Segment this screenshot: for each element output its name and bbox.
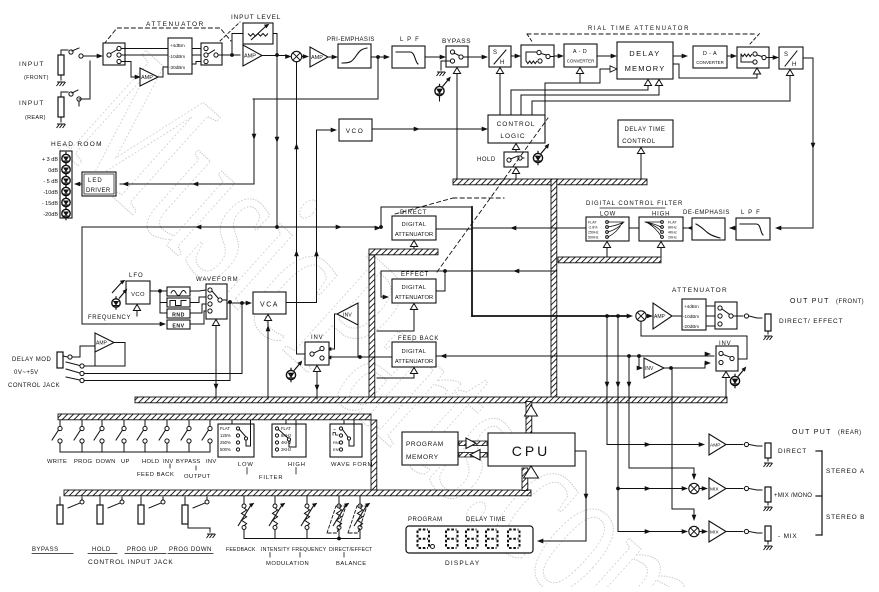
svg-text:DIRECT: DIRECT (400, 210, 427, 216)
attenuator pad block +4dBm/-10dBm/-30dBm (168, 38, 192, 74)
svg-text:BYPASS: BYPASS (32, 547, 59, 553)
program memory block (402, 432, 458, 465)
svg-text:DIGITAL CONTROL FILTER: DIGITAL CONTROL FILTER (586, 201, 683, 207)
pre-emphasis block (338, 44, 371, 68)
ground J6 (764, 507, 773, 511)
low pass filter block 2 (736, 218, 770, 240)
VCA block (253, 292, 286, 314)
A7 input wire (637, 366, 643, 371)
VCA output wire to VCO trunk (286, 302, 317, 304)
svg-text:L P F: L P F (400, 37, 420, 43)
svg-text:BYPASS: BYPASS (176, 459, 201, 465)
svg-text:UP: UP (121, 459, 130, 465)
wire LPF to bypass switch (425, 56, 442, 58)
sine shape box (167, 287, 190, 296)
svg-text:CPU: CPU (512, 443, 551, 459)
mixer M2 front output sum (636, 311, 646, 321)
effect attenuator input wire (381, 271, 385, 297)
display digit 1 (418, 530, 430, 549)
bypass switch S3 (446, 46, 468, 67)
svg-text:OUT PUT: OUT PUT (790, 298, 830, 305)
mixer M3 rear plus (689, 483, 699, 493)
svg-text:ATTENUATOR: ATTENUATOR (395, 359, 433, 365)
front pad block +4dBm/-10dBm/-20dBm (682, 299, 706, 330)
svg-text:DIGITAL: DIGITAL (402, 349, 427, 355)
data bus CPU to program memory (459, 453, 487, 458)
CPU bus arrow top (525, 405, 538, 416)
low pass filter block 1 (392, 46, 425, 68)
display digit 5 (508, 530, 520, 549)
feed back attenuator control input (410, 368, 417, 374)
svg-text:MODULATION: MODULATION (266, 561, 309, 567)
ground for J2 (57, 124, 66, 128)
svg-text:- 15dB: - 15dB (42, 201, 59, 207)
control jack 1 (59, 497, 61, 505)
control jack 2 (99, 497, 101, 505)
digital control filter bus (hatched) horizontal (558, 257, 661, 263)
wire S1 to amp A1 (121, 62, 137, 78)
svg-text:+4dBm: +4dBm (684, 304, 699, 309)
ground J4 (764, 336, 773, 340)
svg-text:PROG: PROG (74, 459, 92, 465)
svg-text:WAVEFORM: WAVEFORM (196, 277, 239, 283)
svg-text:DIRECT/ EFFECT: DIRECT/ EFFECT (779, 318, 843, 325)
digital attenuator bus (hatched) vertical left (369, 255, 375, 402)
svg-text:INTENSITY: INTENSITY (261, 547, 290, 553)
jack J4 output front (765, 314, 771, 331)
rear mix top feed x629 (629, 356, 694, 476)
rear minus mix feed (618, 489, 684, 532)
svg-text:ATTENUATOR: ATTENUATOR (395, 232, 433, 238)
control logic lower input (512, 144, 519, 150)
rear mix trunk x618 (618, 316, 684, 489)
svg-text:CONTROL: CONTROL (497, 121, 536, 128)
SH2 output wire down right side (779, 58, 813, 228)
svg-text:INPUT: INPUT (19, 100, 45, 107)
rear inverted feed x672 (672, 368, 694, 517)
inverter return trunk x296 (297, 62, 309, 354)
svg-text:2KHz: 2KHz (668, 236, 677, 240)
main lower control bus (hatched) horizontal (135, 397, 727, 403)
front pot 2 (274, 496, 276, 504)
wire S4 to A-D converter (554, 55, 560, 57)
svg-text:DELAY: DELAY (629, 49, 661, 58)
ground J7 (764, 546, 773, 550)
head room LED - 5 dB (62, 176, 70, 184)
wire delay memory to D-A converter (673, 55, 684, 57)
wires pads to switch S9 (706, 305, 715, 307)
rear inverter amp A7 (644, 358, 664, 378)
wire LPF2 to de-emphasis (730, 227, 736, 229)
control jack 3 (140, 497, 142, 505)
svg-text:BALANCE: BALANCE (336, 561, 367, 567)
svg-text:MEMORY: MEMORY (406, 454, 439, 461)
digital control bus (hatched) vertical main (551, 179, 557, 402)
svg-text:ATTENUATOR: ATTENUATOR (672, 287, 728, 294)
svg-text:INV: INV (645, 366, 654, 372)
svg-text:DIRECT/EFFECT: DIRECT/EFFECT (329, 547, 373, 553)
main level tap wire x275 (276, 55, 278, 227)
direct attenuator top loop wire (381, 207, 472, 227)
digital control bus (hatched) horizontal top (453, 179, 647, 185)
rear mix output jack wires (726, 488, 743, 490)
svg-text:DRIVER: DRIVER (86, 188, 111, 194)
svg-text:(REAR): (REAR) (25, 115, 46, 121)
control jack panel bus (hatched) horizontal (64, 490, 531, 496)
svg-text:FLAT: FLAT (220, 426, 230, 431)
direct digital attenuator block (392, 216, 436, 240)
inverter switch feed wires (328, 314, 337, 349)
wire VCO2 to waveform shapers (150, 290, 167, 292)
svg-text:CONVERTER: CONVERTER (567, 59, 595, 64)
waveform select switch S7 (206, 284, 227, 319)
digital attenuator bus (hatched) top segment (369, 249, 438, 255)
svg-text:0V~+5V: 0V~+5V (14, 370, 39, 376)
svg-text:FEEDBACK: FEEDBACK (226, 547, 256, 553)
wire bypass to S/H 1 (463, 56, 484, 58)
signal wire to LED driver (120, 99, 254, 184)
svg-text:-30dBm: -30dBm (169, 65, 185, 70)
svg-text:500Hz: 500Hz (588, 236, 599, 240)
svg-text:D - A: D - A (703, 51, 717, 57)
SH1 control input (496, 68, 503, 74)
feed back attenuator output wire to inverter switch (328, 356, 392, 358)
delay memory block (617, 42, 673, 79)
S8 control LED (286, 370, 295, 379)
svg-text:STEREO B: STEREO B (826, 514, 865, 521)
jack J7 rear minus mix (765, 526, 771, 541)
svg-text:PROGRAM: PROGRAM (406, 441, 444, 448)
wires pads to switch S2 (192, 48, 201, 50)
head room LED 0dB (62, 165, 70, 173)
svg-text:LOW: LOW (238, 462, 254, 468)
svg-text:~: ~ (333, 427, 336, 432)
svg-text:VCO: VCO (131, 292, 145, 298)
svg-text:AMP: AMP (710, 443, 720, 449)
rear minus mix output jack wires (726, 531, 743, 533)
svg-text:HOLD: HOLD (142, 459, 159, 465)
hold switch control line to bus (512, 168, 519, 174)
front pot 3 (306, 496, 308, 504)
panel switch 1 (59, 421, 61, 427)
rear phase switch S10 (716, 346, 738, 371)
mod amp feedback loop (93, 352, 95, 366)
D-A converter block (693, 46, 727, 68)
svg-text:FREQUENCY: FREQUENCY (88, 315, 131, 321)
svg-text:MIX: MIX (710, 530, 719, 536)
wire A2 to mixer M1 (262, 55, 288, 57)
display block (406, 526, 533, 553)
LFO VCO block (126, 281, 150, 304)
svg-text:INV: INV (206, 459, 217, 465)
svg-text:DIGITAL: DIGITAL (402, 222, 427, 228)
wire high filter to de-emphasis (683, 227, 687, 229)
effect output bold bus x472 (471, 207, 473, 316)
wire S1 to pad rows (121, 48, 168, 50)
svg-text:AMP: AMP (141, 75, 153, 81)
S5 control input (753, 68, 760, 74)
svg-text:INV: INV (311, 335, 323, 341)
svg-text:H: H (792, 62, 796, 68)
svg-text:RND: RND (172, 313, 185, 319)
svg-text:125%: 125% (220, 433, 231, 438)
wire S2 to amp A2 with level pot loop (218, 54, 240, 56)
delay mod control wire to VCA feed 1 (84, 303, 242, 374)
envelope feed drop to ENV detector (82, 227, 162, 324)
A-D control input (576, 68, 583, 74)
feed back digital attenuator block (392, 342, 436, 367)
rear jack wire to selector (61, 92, 68, 97)
sample-hold block SH1 (489, 46, 511, 67)
panel high filter switch (272, 424, 306, 457)
svg-text:CONTROL: CONTROL (622, 139, 656, 145)
svg-text:HEAD ROOM: HEAD ROOM (51, 141, 103, 148)
D-A lower wire to output switch control (673, 64, 757, 78)
switch panel bus (hatched) top edge (58, 414, 371, 420)
S10 control input (722, 372, 729, 378)
wire A3 to pre-emphasis (328, 56, 334, 58)
svg-text:PROG DOWN: PROG DOWN (169, 547, 212, 553)
output group label (195, 466, 197, 470)
svg-text:MIX: MIX (710, 487, 719, 493)
svg-text:A - D: A - D (573, 49, 587, 55)
panel switch 6 (166, 421, 168, 427)
mix amp A9 (709, 478, 726, 499)
inverter select switch S8 (305, 342, 329, 365)
effect digital attenuator block (392, 279, 436, 303)
amp A1 (140, 68, 158, 86)
VCA control input from bus (264, 315, 271, 321)
LED driver block (82, 172, 116, 196)
effect output bold bus y316 (472, 315, 629, 317)
svg-text:BYPASS: BYPASS (442, 38, 471, 45)
RND shape box (167, 309, 190, 318)
display digit 3 (466, 530, 478, 549)
wire A-D to delay memory (597, 55, 613, 57)
jack J2 input rear (58, 97, 64, 117)
LFO rate pot arrow (112, 282, 122, 293)
head room LED -10dB (62, 187, 70, 195)
svg-text:H: H (500, 60, 504, 66)
low filter control input (603, 242, 610, 248)
svg-text:DISPLAY: DISPLAY (445, 560, 480, 567)
panel switch 4 (123, 421, 125, 427)
head room LED + 3 dB (62, 154, 70, 162)
svg-text:FEED BACK: FEED BACK (137, 472, 174, 478)
svg-text:(FRONT): (FRONT) (24, 75, 49, 81)
svg-text:PROG UP: PROG UP (127, 547, 158, 553)
svg-text:OUTPUT: OUTPUT (184, 474, 211, 480)
panel switch common bus (60, 451, 210, 453)
square shape box (167, 298, 190, 307)
svg-text:250%: 250% (220, 440, 231, 445)
pre-emphasis feedback wire (253, 57, 378, 99)
wire D-A to output switch S5 (727, 55, 733, 57)
svg-text:+4dBm: +4dBm (170, 43, 185, 48)
bypass control line to bus (453, 68, 460, 74)
svg-text:LED: LED (88, 178, 103, 184)
wire LED driver to LEDs (76, 183, 82, 185)
svg-text:FEED BACK: FEED BACK (398, 336, 439, 342)
svg-text:CONVERTER: CONVERTER (696, 60, 724, 65)
real time attenuator output switch S5 with resistor (737, 47, 769, 68)
svg-text:ENV: ENV (172, 324, 184, 330)
svg-text:FLAT: FLAT (281, 426, 291, 431)
front output wire to jack (733, 315, 743, 317)
wire M2 to amp A6 (647, 315, 650, 317)
delay memory control inputs (644, 80, 651, 86)
svg-text:DELAY TIME: DELAY TIME (624, 127, 665, 133)
front pot 4 (338, 496, 340, 504)
svg-text:- MIX: - MIX (778, 533, 798, 540)
svg-text:250Hz: 250Hz (588, 231, 599, 235)
wire SH1 to pre attenuator switch (511, 55, 517, 57)
jack J3 delay mod (57, 352, 63, 368)
rear direct trunk x607 (607, 316, 702, 445)
mixer M4 rear minus (689, 526, 699, 536)
wire to mod amp A4 (72, 346, 94, 357)
delay time control input from bus (637, 148, 644, 154)
wire A6 to front pad block (672, 315, 682, 317)
head room LED -20dB (62, 209, 70, 217)
mod amp A4 (95, 333, 114, 352)
display digit 2 (446, 530, 458, 549)
jack J6 rear mix (765, 487, 771, 502)
svg-text:INV: INV (163, 459, 174, 465)
svg-text:ATTENUATOR: ATTENUATOR (146, 21, 205, 28)
svg-text:AMP: AMP (244, 54, 256, 60)
switch panel bus (hatched) right vertical (371, 420, 377, 490)
svg-text:PRI-EMPHASIS: PRI-EMPHASIS (327, 37, 375, 43)
svg-text:8KHz: 8KHz (668, 226, 677, 230)
front level switch S9 (715, 302, 737, 329)
CPU to display wire (540, 451, 586, 541)
wire A1 to -30dBm pad (158, 67, 168, 77)
wire low-high filters (629, 227, 639, 229)
hold control LED (533, 153, 542, 162)
dashed outline direct/effect pots (327, 506, 346, 533)
bypass control LED (435, 86, 444, 95)
direct attenuator control input (410, 241, 417, 247)
amp A3 (310, 47, 328, 67)
svg-text:MEMORY: MEMORY (625, 64, 666, 73)
A-D converter block (564, 44, 597, 67)
svg-text:+MIX /MONO: +MIX /MONO (774, 493, 812, 499)
inverter input wire (357, 314, 359, 356)
control jack 4 (184, 497, 186, 505)
svg-text:-20dB: -20dB (43, 212, 58, 218)
real time attenuator dashed outline (527, 33, 757, 35)
bypass lower contact to ground (441, 61, 451, 70)
svg-text:-10dBm: -10dBm (683, 314, 699, 319)
svg-text:PROGRAM: PROGRAM (408, 517, 443, 523)
wire pre-emphasis to LPF (371, 56, 385, 58)
ENV shape box (167, 320, 190, 329)
svg-text:-10dB: -10dB (43, 190, 58, 196)
front pot common bus (244, 538, 360, 540)
svg-text:LFO: LFO (129, 273, 144, 279)
effect attenuator control input (410, 304, 417, 310)
front pot 5 (359, 496, 361, 504)
direct attenuator output wire (436, 228, 472, 230)
dashed link S2 to input level pot (220, 22, 240, 41)
low filter block (586, 217, 629, 241)
svg-text:VCA: VCA (260, 302, 279, 309)
svg-text:0dB: 0dB (48, 168, 58, 174)
svg-text:FREQUENCY: FREQUENCY (292, 547, 327, 553)
wire VCO to control logic (372, 128, 484, 130)
CPU block (488, 433, 575, 466)
hold switch S6 (504, 152, 528, 167)
ground bypass (437, 72, 446, 76)
effect attenuator output wire (436, 271, 445, 291)
svg-text:STEREO A: STEREO A (826, 468, 865, 475)
S8 control input (313, 366, 320, 372)
CPU bus stub (hatched) to top bus (526, 402, 532, 434)
switch S2 output attenuator select (201, 43, 222, 65)
svg-text:CONTROL INPUT JACK: CONTROL INPUT JACK (88, 559, 174, 566)
svg-text:2KHz: 2KHz (281, 447, 291, 452)
svg-text:DELAY TIME: DELAY TIME (466, 517, 506, 523)
head room LED - 15dB (62, 198, 70, 206)
svg-text:EFFECT: EFFECT (401, 272, 429, 278)
svg-text:-2.8%: -2.8% (588, 226, 598, 230)
A7 input drop from feedback trunk (638, 356, 640, 368)
real time attenuator input switch S4 with resistor (521, 45, 554, 67)
svg-text:WRITE: WRITE (47, 459, 67, 465)
envelope feed trunk y227 (82, 226, 377, 228)
balance group label (343, 553, 345, 558)
input select contacts (61, 50, 68, 55)
svg-text:FLAT: FLAT (668, 221, 677, 225)
svg-text:500%: 500% (220, 447, 231, 452)
svg-text:AMP: AMP (96, 341, 108, 347)
wire S5 to SH2 (766, 57, 775, 59)
svg-text:4KHz: 4KHz (668, 231, 677, 235)
CPU bus arrow bottom (524, 466, 539, 478)
svg-text:FILTER: FILTER (259, 475, 283, 481)
LFO control input (133, 305, 140, 311)
sample-hold block SH2 (779, 47, 803, 69)
front output feedback wire to rear select (641, 322, 747, 360)
svg-text:S: S (784, 52, 788, 58)
LFO indicator LED (112, 299, 120, 307)
delay mod switch contacts (68, 355, 72, 359)
feed back group label (169, 464, 171, 468)
svg-text:L P F: L P F (741, 210, 761, 216)
control jack panel ground (188, 524, 210, 532)
panel low filter switch (218, 424, 254, 457)
A7 output wire to S10 (664, 363, 707, 368)
jack J1 input front (58, 55, 64, 75)
svg-text:INPUT LEVEL: INPUT LEVEL (231, 14, 281, 21)
front pot 1 (243, 496, 245, 504)
svg-text:FLAT: FLAT (588, 221, 597, 225)
amp A6 (653, 303, 672, 329)
wire waveform switch to VCA (222, 300, 248, 303)
dashed link to real time attenuator (437, 118, 548, 272)
svg-text:AMP: AMP (311, 55, 323, 61)
VCO feed trunk x316 from VCA output (316, 130, 318, 303)
svg-text:+ 3 dB: + 3 dB (42, 157, 58, 163)
rear amp A8 (709, 434, 726, 455)
VCO clock block (339, 119, 372, 141)
svg-text:VCO: VCO (346, 128, 365, 135)
delay memory write line (600, 69, 610, 83)
svg-text:HIGH: HIGH (288, 462, 306, 468)
panel switch 8 (209, 421, 211, 427)
delay time control block (618, 120, 673, 147)
